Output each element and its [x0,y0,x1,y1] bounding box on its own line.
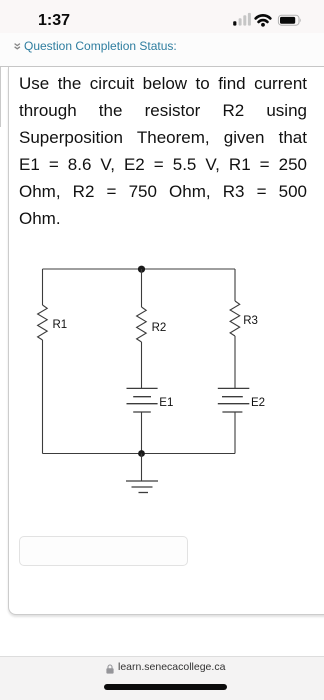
node: bottom junction [138,450,145,457]
clock 1:37 [38,14,70,28]
battery E1 [127,388,158,412]
svg-text:R3: R3 [243,315,258,327]
question completion status row [0,33,324,67]
divider line [0,66,324,67]
lock icon [106,664,114,674]
svg-text:R1: R1 [53,319,68,331]
signal bar 1 [233,21,236,25]
bottom url bar [0,656,324,700]
wire: top horizontal [43,268,236,270]
status bar background [0,0,324,33]
resistor R1 [38,305,48,340]
svg-text:R2: R2 [152,322,167,334]
wire: middle branch upper [141,269,143,307]
signal bar 4 [248,13,251,26]
header link text [24,39,177,53]
svg-text:E1: E1 [159,397,173,409]
wire: ground stem [141,454,143,482]
wire: middle branch to battery [141,342,143,389]
node: top junction [138,266,145,273]
signal bar 3 [243,15,246,25]
wire: right branch upper [234,269,236,301]
wire: right branch to battery [234,336,236,389]
signal bar 2 [239,18,242,25]
resistor R3 [230,301,240,336]
answer input box [19,536,188,566]
svg-text:E2: E2 [251,397,265,409]
ground symbol [126,481,158,493]
battery icon [278,15,300,25]
wifi icon [256,15,271,26]
wire: right branch lower [234,412,236,454]
wire: bottom horizontal [43,453,236,455]
battery E2 [218,388,250,412]
wire: middle branch lower [141,412,143,454]
wire: left branch lower [42,340,44,454]
left page edge line [0,67,1,127]
resistor R2 [137,307,147,342]
collapse chevron icon [14,43,21,50]
status icons (signal, wifi, battery) [0,0,324,33]
home indicator [104,684,227,690]
wire: left branch upper [42,269,44,305]
question text [19,70,307,232]
question card [8,67,324,615]
url text [118,661,225,673]
